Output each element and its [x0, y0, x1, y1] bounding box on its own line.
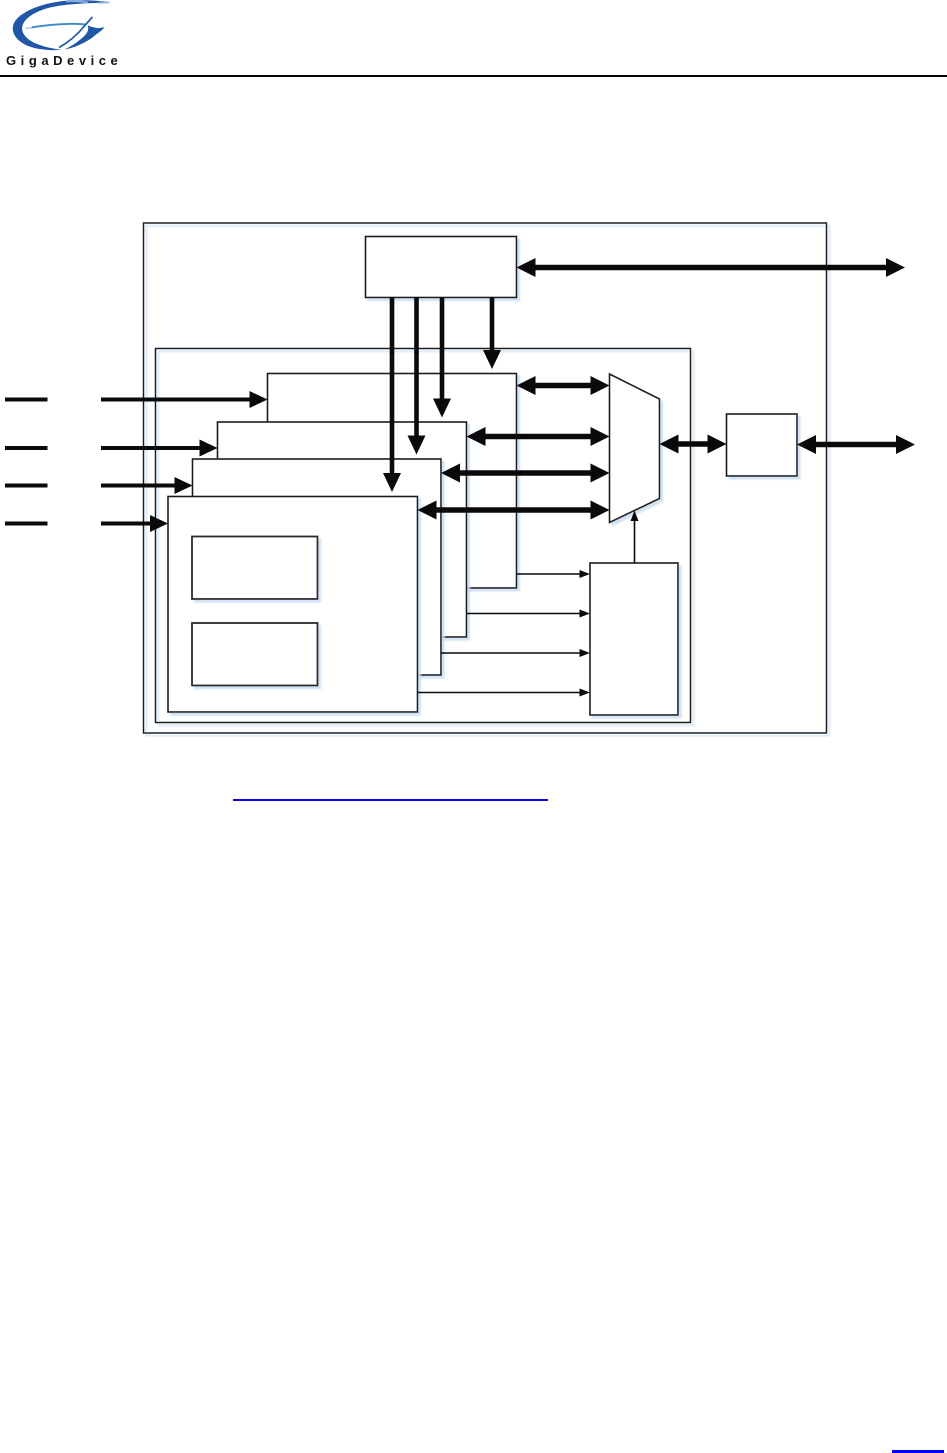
wire: down arrow from U1 to B1 — [483, 298, 501, 370]
bus: bidirectional arrow U2 to external — [797, 435, 915, 454]
acceptance filter box U3 — [590, 563, 678, 715]
brand name text — [6, 53, 122, 68]
interface box U2 — [727, 414, 798, 476]
external pin stub 1 — [5, 398, 48, 402]
outer peripheral boundary box — [144, 223, 827, 733]
GigaDevice logo — [0, 0, 120, 72]
logo diagonal slash — [59, 17, 92, 48]
wire: B2 to filter U3 — [467, 610, 591, 618]
logo open G ring — [13, 0, 110, 50]
sub-block rect B inside B4 — [192, 623, 318, 686]
external pin stub 2 — [5, 446, 48, 450]
bus: bidirectional arrow M1 to U2 — [660, 435, 727, 454]
inner mailbox-area boundary box — [156, 349, 691, 723]
wire: input arrow into B3 — [101, 477, 193, 494]
header rule — [0, 75, 947, 77]
mailbox box B2 — [218, 422, 467, 637]
wire: down arrow from U1 to B2 — [433, 298, 451, 418]
bus: bidirectional arrow U1 to external — [517, 258, 906, 277]
wire: down arrow from U1 to B4 — [383, 298, 401, 493]
external pin stub 3 — [5, 484, 48, 488]
external pin stub 4 — [5, 522, 48, 526]
mux M1 — [610, 374, 660, 523]
hyperlink underline — [233, 799, 548, 801]
mailbox box B3 — [193, 459, 442, 675]
wire: B3 to filter U3 — [441, 649, 590, 657]
wire: input arrow into B1 — [101, 391, 268, 408]
wire: input arrow into B2 — [101, 440, 218, 457]
bus: bidirectional arrow B2 to M1 — [467, 427, 610, 446]
mailbox box B4 (front) — [168, 497, 418, 713]
logo light swoosh — [26, 27, 34, 28]
page-bottom hyperlink underline — [892, 1450, 944, 1453]
wire: input arrow into B4 — [101, 515, 168, 532]
wire: down arrow from U1 to B3 — [408, 298, 426, 455]
wire: B4 to filter U3 — [418, 689, 591, 697]
wire: B1 to filter U3 — [517, 570, 591, 578]
bus: bidirectional arrow B4 to M1 — [418, 501, 610, 520]
top control register box U1 — [366, 237, 517, 298]
bus: bidirectional arrow B1 to M1 — [517, 376, 610, 395]
sub-block rect A inside B4 — [192, 537, 318, 600]
wire: up arrow from U3 to M1 select — [631, 511, 639, 564]
logo top light patch — [66, 1, 88, 3]
logo crescent comma — [64, 25, 104, 49]
mailbox box B1 (back) — [268, 374, 517, 589]
logo ring tip light fade — [98, 1, 110, 4]
bus: bidirectional arrow B3 to M1 — [441, 464, 610, 483]
